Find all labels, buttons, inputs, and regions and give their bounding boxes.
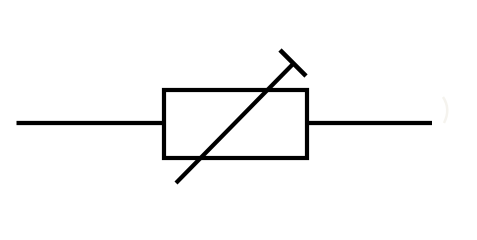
wire right lead <box>307 121 432 125</box>
preset adjustment diagonal stroke <box>176 64 293 183</box>
resistor body (rectangle) <box>164 90 307 158</box>
wire left lead <box>17 121 165 125</box>
faint eraser ghost near right lead end <box>443 97 447 123</box>
screwdriver-slot T-bar <box>280 50 306 76</box>
